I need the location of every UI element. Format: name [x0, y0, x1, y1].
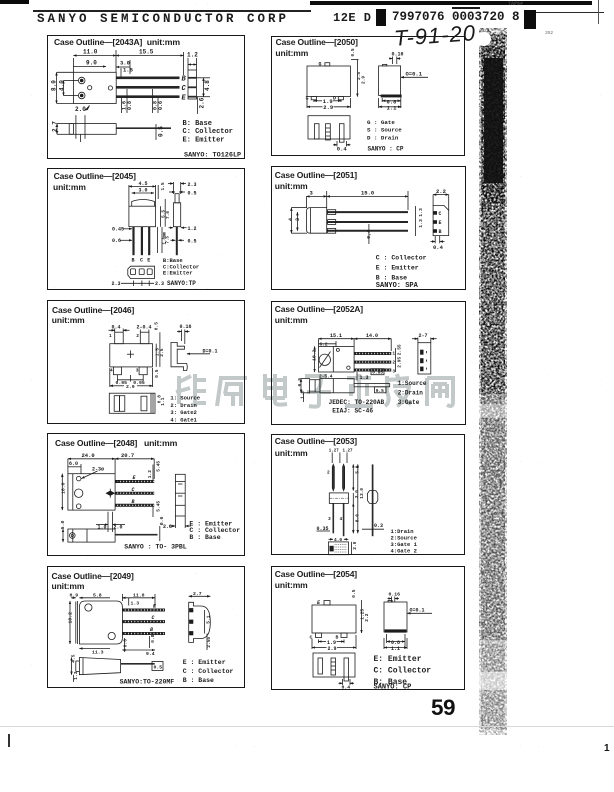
svg-text:2:Drain: 2:Drain	[398, 389, 424, 396]
svg-text:7.0: 7.0	[165, 211, 171, 219]
svg-text:0.4: 0.4	[337, 146, 348, 153]
svg-text:1.3: 1.3	[131, 601, 140, 607]
svg-text:B: B	[439, 229, 442, 235]
svg-text:E: Emitter: E: Emitter	[183, 137, 225, 145]
svg-text:2.55: 2.55	[396, 344, 402, 355]
svg-text:B: B	[182, 76, 187, 84]
svg-text:0.16: 0.16	[389, 592, 401, 598]
svg-text:2.7: 2.7	[52, 121, 59, 132]
svg-text:0.5: 0.5	[158, 126, 165, 137]
svg-text:15.1: 15.1	[330, 333, 342, 339]
svg-text:C : Collector: C : Collector	[376, 255, 427, 262]
svg-text:2: 2	[136, 333, 139, 339]
svg-text:4: 4	[110, 368, 113, 374]
svg-text:1: Source: 1: Source	[170, 395, 200, 402]
svg-text:0.16: 0.16	[180, 324, 192, 330]
svg-text:SANYO : CP: SANYO : CP	[368, 146, 404, 153]
svg-text:1.27: 1.27	[329, 449, 340, 453]
svg-text:1.5: 1.5	[160, 182, 166, 190]
svg-text:9.5: 9.5	[376, 388, 384, 394]
svg-text:SANYO : TO- 3PBL: SANYO : TO- 3PBL	[124, 544, 187, 551]
svg-text:10.2: 10.2	[311, 349, 317, 361]
svg-text:1.3: 1.3	[418, 208, 424, 217]
svg-text:3.0: 3.0	[354, 490, 360, 498]
svg-text:E: E	[439, 220, 442, 226]
svg-text:C: Collector: C: Collector	[183, 128, 233, 136]
svg-text:3: 3	[310, 190, 314, 197]
svg-text:9.0: 9.0	[86, 60, 97, 67]
svg-text:3:Gate: 3:Gate	[398, 399, 420, 406]
svg-text:0.16: 0.16	[392, 52, 404, 58]
svg-text:E: E	[182, 95, 187, 103]
svg-text:1.3: 1.3	[299, 390, 305, 399]
svg-text:16.0: 16.0	[60, 482, 66, 494]
svg-text:2.9: 2.9	[361, 76, 367, 84]
svg-text:8.0: 8.0	[51, 80, 58, 91]
svg-text:4.0: 4.0	[59, 80, 66, 91]
svg-text:SANYO:TO-220MF: SANYO:TO-220MF	[120, 678, 175, 685]
svg-text:11.3: 11.3	[92, 650, 104, 656]
svg-text:3: Gate2: 3: Gate2	[170, 409, 196, 416]
svg-text:4.0: 4.0	[334, 537, 342, 543]
svg-text:2.55: 2.55	[206, 637, 212, 648]
svg-text:3.0: 3.0	[120, 60, 130, 67]
svg-text:D : Drain: D : Drain	[367, 134, 399, 141]
svg-text:B : Base: B : Base	[376, 274, 407, 281]
svg-text:C: C	[132, 487, 135, 493]
svg-text:2.6: 2.6	[199, 97, 206, 108]
svg-text:2.3: 2.3	[188, 182, 197, 188]
svg-text:O=0.1: O=0.1	[410, 608, 425, 614]
svg-text:0.5: 0.5	[188, 190, 197, 196]
svg-text:3: 3	[136, 368, 139, 374]
svg-text:1.3: 1.3	[73, 671, 79, 679]
svg-text:6.5: 6.5	[297, 378, 303, 387]
svg-text:2.9: 2.9	[328, 646, 337, 652]
svg-text:4.5: 4.5	[139, 181, 148, 187]
svg-text:G: G	[319, 62, 322, 68]
svg-text:C : Collector: C : Collector	[183, 668, 234, 675]
svg-text:S : Source: S : Source	[367, 127, 402, 134]
svg-text:5.8: 5.8	[93, 592, 102, 598]
svg-text:1: 1	[109, 333, 112, 339]
svg-text:0.8: 0.8	[150, 634, 156, 642]
svg-text:SANYO:TP: SANYO:TP	[167, 280, 196, 287]
svg-text:E : Emitter: E : Emitter	[183, 659, 226, 666]
svg-text:0.4: 0.4	[112, 325, 121, 331]
svg-text:E: Emitter: E: Emitter	[374, 655, 422, 664]
svg-text:SANYO: CP: SANYO: CP	[374, 684, 412, 692]
svg-text:1.5: 1.5	[123, 67, 134, 74]
svg-text:15.0: 15.0	[361, 190, 374, 197]
svg-text:1.1: 1.1	[387, 104, 398, 111]
svg-text:4:Gate 2: 4:Gate 2	[391, 548, 417, 555]
svg-text:B : Base: B : Base	[183, 677, 214, 684]
svg-text:2.3: 2.3	[112, 281, 121, 287]
svg-text:5.45: 5.45	[156, 501, 162, 512]
svg-text:2.3: 2.3	[155, 281, 164, 287]
svg-text:1.3: 1.3	[418, 219, 424, 228]
svg-text:0.5: 0.5	[154, 665, 163, 671]
svg-text:5.1: 5.1	[206, 615, 212, 623]
svg-text:0.4: 0.4	[433, 244, 444, 251]
svg-text:0,4: 0,4	[366, 230, 372, 239]
svg-text:0.6: 0.6	[158, 101, 164, 110]
svg-text:C: C	[152, 615, 155, 621]
svg-text:SANYO: SPA: SANYO: SPA	[376, 282, 419, 290]
svg-text:0.5: 0.5	[154, 322, 160, 330]
svg-text:0.9: 0.9	[70, 592, 79, 598]
svg-text:E:Emitter: E:Emitter	[163, 270, 193, 277]
svg-text:2: 2	[327, 470, 330, 476]
svg-text:0.45: 0.45	[112, 227, 124, 233]
svg-text:11.0: 11.0	[83, 49, 98, 56]
svg-text:2.9: 2.9	[126, 384, 135, 390]
svg-text:4: Gate1: 4: Gate1	[170, 416, 197, 423]
svg-text:20.7: 20.7	[121, 452, 134, 459]
svg-text:7.5: 7.5	[166, 235, 170, 243]
svg-text:1.1: 1.1	[160, 397, 166, 405]
svg-text:SANYO: TO126LP: SANYO: TO126LP	[184, 151, 241, 159]
svg-text:3: 3	[328, 516, 331, 522]
svg-text:4: 4	[340, 516, 343, 522]
svg-text:2.95: 2.95	[396, 357, 402, 368]
svg-text:1.2: 1.2	[187, 52, 198, 59]
svg-text:C: C	[439, 211, 442, 217]
svg-text:6.0: 6.0	[69, 461, 78, 467]
svg-text:E : Emitter: E : Emitter	[376, 264, 419, 271]
svg-text:1.3: 1.3	[360, 375, 369, 381]
svg-text:C: C	[140, 258, 143, 264]
svg-text:C: C	[182, 85, 187, 93]
svg-text:1.27: 1.27	[343, 449, 354, 453]
svg-text:0.95: 0.95	[133, 380, 145, 386]
svg-text:0.3: 0.3	[374, 523, 383, 529]
svg-text:0.5: 0.5	[154, 369, 160, 377]
svg-text:B: Base: B: Base	[183, 120, 212, 128]
svg-text:6.2: 6.2	[320, 342, 328, 348]
svg-text:2.9: 2.9	[323, 104, 333, 111]
svg-text:2.7: 2.7	[193, 591, 202, 597]
svg-text:0.8: 0.8	[127, 101, 133, 110]
svg-text:2-3ø: 2-3ø	[92, 466, 104, 472]
svg-text:1: 1	[392, 351, 395, 357]
svg-text:2.2: 2.2	[436, 188, 446, 195]
svg-text:0.4: 0.4	[342, 685, 351, 691]
svg-text:EIAJ: SC-46: EIAJ: SC-46	[332, 408, 373, 415]
svg-text:1.1: 1.1	[391, 646, 400, 652]
svg-text:24.0: 24.0	[82, 452, 95, 459]
svg-text:1.2: 1.2	[188, 226, 197, 232]
svg-text:2: 2	[392, 360, 395, 366]
svg-text:B: B	[132, 258, 135, 264]
svg-text:0.6: 0.6	[123, 639, 129, 647]
svg-text:0.6: 0.6	[159, 516, 165, 525]
svg-text:2: Drain: 2: Drain	[170, 402, 196, 409]
svg-text:C: Collector: C: Collector	[374, 667, 432, 676]
svg-text:14.0: 14.0	[366, 333, 378, 339]
svg-text:5.0: 5.0	[60, 521, 66, 530]
svg-text:O=0.1: O=0.1	[406, 71, 423, 78]
svg-text:B: B	[132, 499, 135, 505]
svg-text:4: 4	[288, 218, 294, 221]
svg-text:3: 3	[392, 369, 395, 375]
svg-text:2.2: 2.2	[364, 613, 370, 621]
svg-text:0.6: 0.6	[112, 238, 121, 244]
svg-text:10.2: 10.2	[67, 612, 73, 624]
svg-text:0.85: 0.85	[372, 370, 383, 376]
svg-text:1:Source: 1:Source	[398, 380, 427, 387]
svg-text:2.0: 2.0	[352, 541, 358, 549]
svg-text:E: E	[147, 258, 150, 264]
svg-text:B : Base: B : Base	[189, 534, 220, 541]
svg-text:1.2: 1.2	[147, 470, 153, 478]
svg-text:G : Gate: G : Gate	[367, 119, 395, 126]
svg-text:4.5: 4.5	[71, 654, 77, 662]
svg-text:0.5: 0.5	[351, 589, 357, 597]
svg-text:8.0: 8.0	[355, 514, 361, 522]
svg-text:5.45: 5.45	[156, 461, 162, 472]
svg-text:9.4: 9.4	[146, 651, 155, 657]
svg-text:2.0: 2.0	[75, 106, 86, 113]
svg-text:3.0: 3.0	[139, 188, 148, 194]
svg-text:B: B	[150, 627, 153, 633]
svg-text:4.8: 4.8	[204, 80, 211, 91]
svg-text:15.5: 15.5	[139, 49, 154, 56]
svg-text:JEDEC: TO-220AB: JEDEC: TO-220AB	[329, 399, 385, 406]
svg-text:3: 3	[295, 218, 301, 221]
svg-text:0.5: 0.5	[350, 48, 356, 56]
svg-text:11.0: 11.0	[133, 592, 145, 598]
svg-text:0.5: 0.5	[188, 239, 197, 245]
svg-text:2-7: 2-7	[419, 333, 428, 339]
svg-text:2.5: 2.5	[159, 348, 165, 356]
